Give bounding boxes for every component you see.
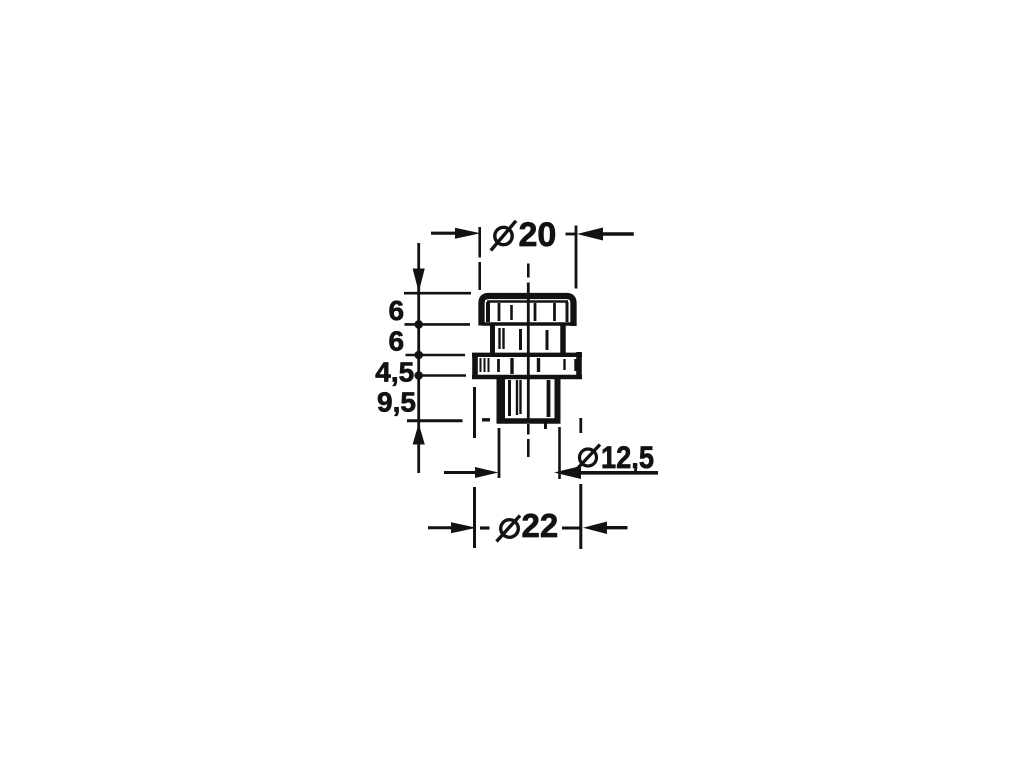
cap knurl ticks: [499, 303, 555, 321]
dimension diam 12,5: diameter symbol: [577, 445, 601, 470]
dimension diam 20: right dimension line and arrow: [566, 228, 634, 241]
dimension diam 12,5: right dimension line and arrow: [554, 466, 658, 479]
flange knurl ticks: [481, 358, 576, 374]
extension line 3 (flange top): [406, 354, 466, 357]
left dimension chain: vertical line: [417, 243, 420, 473]
svg-text:9,5: 9,5: [377, 387, 416, 418]
left dimension chain: bottom arrow (up): [413, 424, 425, 445]
dimension diam 12,5: left extension line: [498, 428, 501, 478]
chain node dot 2: [414, 351, 423, 360]
left dimension chain: top arrow (down): [413, 269, 425, 293]
dimension diam 22: right dimension line and arrow: [562, 522, 628, 535]
svg-text:22: 22: [522, 507, 559, 544]
extension line 2 (cap bottom): [405, 323, 471, 326]
part outline: top cap (6 mm section): [482, 296, 575, 326]
dimension diam 20: left extension line: [478, 227, 481, 290]
extension line 5 (bottom of part): [407, 419, 463, 422]
stem knurl ticks: [510, 380, 549, 429]
dimension diam 20: right extension line: [575, 226, 578, 289]
part outline: flange (4,5 mm section): [472, 352, 582, 379]
dimension diam 22: diameter symbol: [497, 516, 521, 542]
dimension diam 12,5: left dimension line and arrow: [444, 467, 499, 478]
dimension diam 22: left extension line (upper / lower): [473, 387, 476, 548]
chain node dot 1: [414, 320, 423, 329]
second section knurl ticks: [500, 328, 548, 350]
dimension diam 12,5: right extension line: [558, 427, 561, 479]
svg-text:12,5: 12,5: [601, 439, 654, 475]
dimension diam 22: left dimension line and arrow: [428, 522, 490, 533]
svg-text:4,5: 4,5: [375, 357, 414, 388]
part outline: bottom stem (9,5 mm / diam 12,5): [497, 377, 561, 421]
svg-text:20: 20: [519, 216, 557, 254]
extension line 1 (top of part): [404, 292, 471, 295]
extension line 4 (flange bottom): [420, 374, 466, 377]
dimension diam 20: left dimension line and arrow: [431, 228, 481, 239]
stray dash left of stem bottom: [482, 418, 490, 421]
chain node dot 3: [414, 371, 423, 380]
part outline: second section (6 mm): [493, 325, 564, 354]
dimension diam 20: diameter symbol: [491, 221, 516, 251]
centerline (vertical axis): [527, 264, 530, 458]
svg-text:6: 6: [389, 326, 405, 357]
dimension diam 22: right extension line (upper / lower): [579, 418, 582, 549]
svg-text:6: 6: [389, 295, 405, 326]
